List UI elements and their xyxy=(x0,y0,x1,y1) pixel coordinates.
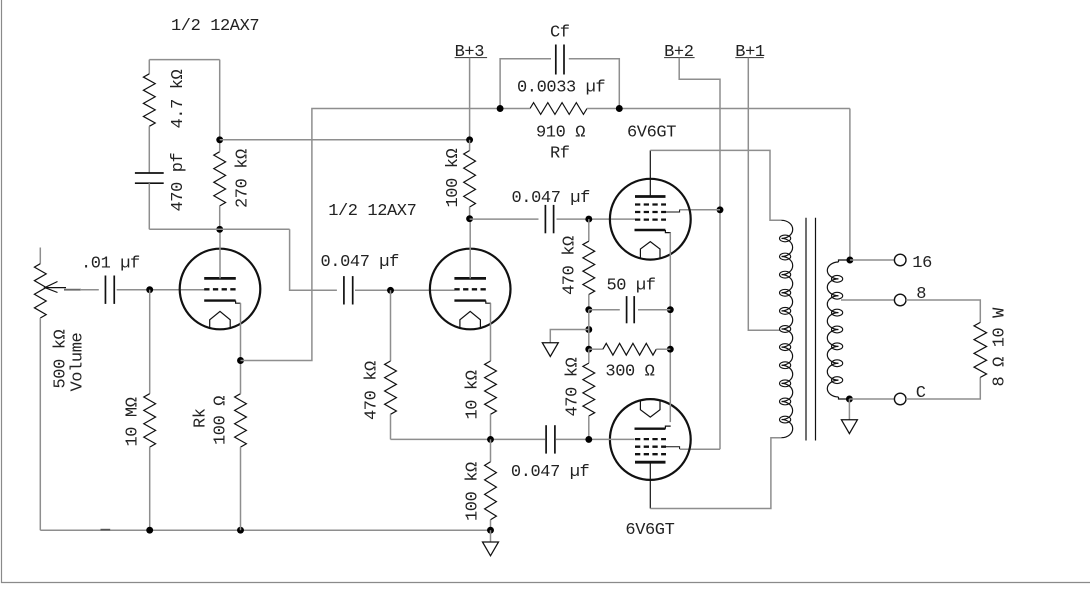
svg-text:10 MΩ: 10 MΩ xyxy=(123,397,142,446)
wire plate upper 6V6 to transformer xyxy=(649,150,651,196)
triode U2 1/2 12AX7 xyxy=(430,249,511,330)
wire cathodes 6V6 xyxy=(669,233,671,310)
node grid upper 6V6 xyxy=(585,216,592,223)
node rail ground xyxy=(487,527,494,534)
svg-text:Rk: Rk xyxy=(191,408,210,428)
node Cf left xyxy=(497,105,504,112)
svg-text:1/2 12AX7: 1/2 12AX7 xyxy=(328,202,416,221)
capacitor 470 pf xyxy=(135,172,164,174)
node 16 tap xyxy=(846,257,853,264)
node cathode U1 xyxy=(237,357,244,364)
node B+3 junction xyxy=(466,136,473,143)
wire screen upper 6V6 xyxy=(680,209,720,211)
resistor 10 kΩ xyxy=(485,361,497,414)
capacitor 0.047 µf to lower 6V6 xyxy=(545,425,547,453)
node C tap xyxy=(846,396,853,403)
svg-text:10 kΩ: 10 kΩ xyxy=(463,370,482,419)
wire plate lead U2 xyxy=(469,219,471,279)
capacitor 0.047 µf interstage xyxy=(343,276,345,304)
svg-text:470 pf: 470 pf xyxy=(169,152,188,211)
capacitor Cf 0.0033 µf xyxy=(500,59,551,109)
resistor 300 Ω xyxy=(589,348,603,350)
resistor 8 Ω 10 W load xyxy=(974,322,987,377)
node grid U2 xyxy=(387,287,394,294)
transformer secondary winding xyxy=(839,260,850,262)
svg-text:Volume: Volume xyxy=(68,332,87,391)
svg-text:50 µf: 50 µf xyxy=(607,277,656,296)
svg-text:.01 µf: .01 µf xyxy=(81,255,140,274)
resistor 4.7 kΩ xyxy=(148,60,150,74)
capacitor .01 µf xyxy=(104,276,106,304)
svg-text:0.047 µf: 0.047 µf xyxy=(321,253,400,272)
ground rail wire xyxy=(40,529,490,531)
svg-text:Rf: Rf xyxy=(550,145,570,164)
wire C3 to grid upper 6V6 xyxy=(557,218,636,220)
wire cathode lead U2 xyxy=(490,303,492,361)
svg-text:6V6GT: 6V6GT xyxy=(625,521,674,540)
triode U1 1/2 12AX7 xyxy=(180,249,261,330)
svg-text:0.047 µf: 0.047 µf xyxy=(511,463,590,482)
bottom grid rail wire xyxy=(391,438,546,440)
resistor 100 kΩ plate U2 xyxy=(464,151,476,208)
wire rail tick xyxy=(101,529,111,531)
svg-text:6V6GT: 6V6GT xyxy=(627,124,676,143)
node Cf right xyxy=(616,105,623,112)
terminal 8 xyxy=(894,294,906,306)
svg-text:100 kΩ: 100 kΩ xyxy=(444,148,463,207)
resistor 10 MΩ xyxy=(149,290,151,394)
wire top loop xyxy=(149,59,219,61)
resistor 100 kΩ feedback shunt xyxy=(490,439,492,461)
capacitor 0.047 µf to upper 6V6 xyxy=(544,205,546,233)
svg-text:16: 16 xyxy=(912,254,932,273)
wire cathode lead U1 xyxy=(240,303,242,360)
wire 270k junction to B+3 xyxy=(220,139,470,141)
node bias junction 2 xyxy=(585,346,592,353)
svg-text:8 Ω 10 W: 8 Ω 10 W xyxy=(991,307,1010,387)
wire cap to grid of U1 xyxy=(117,289,205,291)
ground main xyxy=(490,530,492,542)
wire C2 to grid U2 xyxy=(355,289,455,291)
node plate U2 xyxy=(466,215,473,222)
node screen upper xyxy=(717,206,724,213)
capacitor 50 µf xyxy=(589,309,620,311)
wire B+1 to center tap xyxy=(748,58,779,331)
wire C4 to grid lower 6V6 xyxy=(556,438,635,440)
wire plate U2 to C3 xyxy=(470,218,539,220)
svg-text:470 kΩ: 470 kΩ xyxy=(563,357,582,416)
node cathode bias bottom xyxy=(667,346,674,353)
svg-text:B+1: B+1 xyxy=(735,43,765,62)
resistor 270 kΩ xyxy=(214,152,226,206)
node bias junction 1 xyxy=(585,306,592,313)
terminal C xyxy=(894,393,906,405)
node bias ground tap xyxy=(585,326,592,333)
svg-text:0.0033 µf: 0.0033 µf xyxy=(517,79,605,98)
svg-text:270 kΩ: 270 kΩ xyxy=(234,149,253,208)
resistor Rk 100 Ω xyxy=(235,394,247,447)
wire C to load xyxy=(906,377,980,399)
svg-text:1/2 12AX7: 1/2 12AX7 xyxy=(171,17,259,36)
svg-text:910 Ω: 910 Ω xyxy=(536,124,585,143)
wire plate lead U1 xyxy=(219,229,221,278)
terminal 16 xyxy=(894,254,906,266)
wire wiper to C .01 xyxy=(64,289,81,291)
svg-text:470 kΩ: 470 kΩ xyxy=(560,236,579,295)
svg-text:470 kΩ: 470 kΩ xyxy=(363,361,382,420)
svg-text:100 Ω: 100 Ω xyxy=(211,396,230,445)
svg-text:300 Ω: 300 Ω xyxy=(605,363,654,382)
wire 8 to load xyxy=(906,300,980,322)
node plate U1 xyxy=(216,226,223,233)
transformer core xyxy=(805,218,807,441)
svg-text:8: 8 xyxy=(916,285,926,304)
svg-text:4.7 kΩ: 4.7 kΩ xyxy=(169,69,188,128)
wire plate lower 6V6 to transformer xyxy=(649,462,651,508)
potentiometer 500 kΩ Volume xyxy=(39,248,41,264)
resistor 470 kΩ grid leak U2 xyxy=(390,290,392,361)
ground secondary xyxy=(848,399,850,420)
svg-text:100 kΩ: 100 kΩ xyxy=(463,462,482,521)
wire 16 tap xyxy=(850,259,895,261)
node plate-R junction xyxy=(216,136,223,143)
node rail 10M xyxy=(146,527,153,534)
tube lower 6V6GT xyxy=(610,399,691,480)
svg-text:0.047 µf: 0.047 µf xyxy=(512,189,591,208)
node grid1 junction xyxy=(146,286,153,293)
node cathode bias top xyxy=(667,306,674,313)
node grid lower 6V6 xyxy=(585,436,592,443)
svg-text:C: C xyxy=(916,384,926,403)
ground bias xyxy=(542,343,558,357)
node rail Rk xyxy=(237,527,244,534)
wire to ground bias xyxy=(550,330,589,343)
wire C tap xyxy=(849,398,894,400)
tube upper 6V6GT xyxy=(610,179,691,260)
resistor Rf 910 Ω xyxy=(530,103,587,115)
wire 8 tap xyxy=(841,299,894,301)
transformer primary winding xyxy=(782,220,793,437)
svg-text:Cf: Cf xyxy=(550,24,570,43)
node rail 10k xyxy=(487,436,494,443)
resistor 470 kΩ upper bias xyxy=(588,219,590,241)
wire screen lower 6V6 xyxy=(680,448,720,450)
resistor 470 kΩ lower bias xyxy=(588,349,590,363)
wire plate U1 to C2 xyxy=(149,228,289,230)
feedback wire xyxy=(241,109,501,361)
